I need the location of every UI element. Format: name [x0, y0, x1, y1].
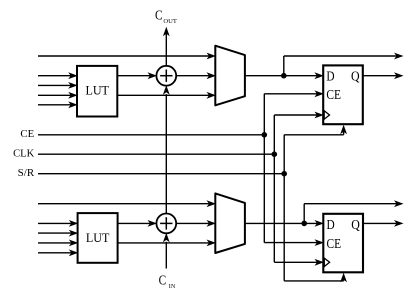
svg-text:S/R: S/R [18, 168, 35, 179]
wire CE branch to FF2 [264, 239, 324, 246]
wire CE vertical (FF1 to FF2) [263, 94, 265, 243]
clock triangle pin (FF2) [324, 258, 329, 266]
svg-text:CE: CE [326, 87, 341, 102]
wire carry chain A2 to A1 (vertical) [163, 85, 170, 213]
wire carry input C_IN (vertical up into A2) [163, 233, 170, 269]
wire S/R vertical (FF1 to FF2) [283, 135, 285, 281]
svg-text:Q: Q [351, 68, 360, 83]
wire bypass input to mux M2 (bottom) [38, 203, 210, 205]
svg-text:LUT: LUT [85, 83, 109, 98]
wire LUT L2 output to carry adder A2 [118, 222, 151, 224]
clock triangle pin (FF1) [324, 111, 329, 119]
wire carry chain C_OUT (A1 top to top arrow) [163, 27, 170, 66]
svg-text:C: C [155, 8, 163, 23]
svg-text:CE: CE [20, 129, 34, 140]
wire CLK branch to FF2 [274, 259, 324, 266]
carry adder A1 (+) [156, 66, 176, 86]
mux M1 trapezoid [215, 46, 245, 106]
svg-text:CE: CE [327, 236, 342, 251]
flip-flop FF1 box [323, 65, 363, 124]
node S/R junction [281, 171, 287, 177]
wire adder A1 output to mux M1 [176, 75, 210, 77]
wire S/R net (horizontal) [38, 173, 284, 175]
wire CLK branch to FF1 [274, 112, 324, 119]
wire bypass output (bottom), up then right with arrow [304, 200, 403, 223]
node: junction mux M1 output / bypass-out [281, 73, 287, 79]
wire LUT L2 second output to mux M2 [118, 242, 210, 244]
svg-text:C: C [159, 273, 167, 288]
carry adder A2 (+) [156, 214, 176, 234]
wire CLK net (horizontal) [38, 153, 274, 155]
wire LUT L1 output to carry adder A1 [117, 75, 151, 77]
wires LUT L1 inputs (4) [38, 72, 78, 108]
mux M2 trapezoid [215, 193, 245, 253]
wire FF1 Q output [363, 72, 404, 79]
wire LUT L1 second output to mux M1 [117, 94, 210, 96]
wire adder A2 output to mux M2 [176, 222, 210, 224]
wire CLK vertical (FF1 to FF2) [273, 115, 275, 262]
wires LUT L2 inputs (4) [38, 220, 78, 256]
wire bypass output (top), up then right with arrow [284, 53, 404, 76]
wire CE net (horizontal) [38, 134, 264, 136]
wire S/R branch to FF2 (up into bottom of FF2) [284, 273, 347, 283]
wire mux M2 output to FF2 D input [245, 220, 324, 227]
label C_OUT [155, 8, 177, 26]
svg-text:Q: Q [351, 217, 360, 232]
wire S/R branch to FF1 (up into bottom of FF1) [284, 125, 347, 135]
flip-flop FF2 box [323, 214, 363, 272]
wire FF2 Q output [363, 220, 404, 227]
node CE junction [262, 132, 268, 138]
LUT L2 box [78, 213, 118, 263]
node: junction mux M2 output / bypass-out [301, 221, 307, 227]
LUT L1 box [77, 66, 117, 117]
wire bypass input to mux M1 (top) [38, 55, 210, 57]
label C_IN [159, 273, 176, 291]
svg-text:D: D [326, 68, 334, 83]
svg-text:IN: IN [169, 284, 176, 290]
wire CE branch to FF1 [264, 90, 324, 97]
svg-text:CLK: CLK [13, 148, 35, 159]
svg-text:LUT: LUT [86, 230, 110, 245]
wire mux M1 output to FF1 D input [245, 72, 324, 79]
node CLK junction [272, 151, 278, 157]
svg-text:OUT: OUT [163, 19, 177, 25]
svg-text:D: D [327, 217, 335, 232]
